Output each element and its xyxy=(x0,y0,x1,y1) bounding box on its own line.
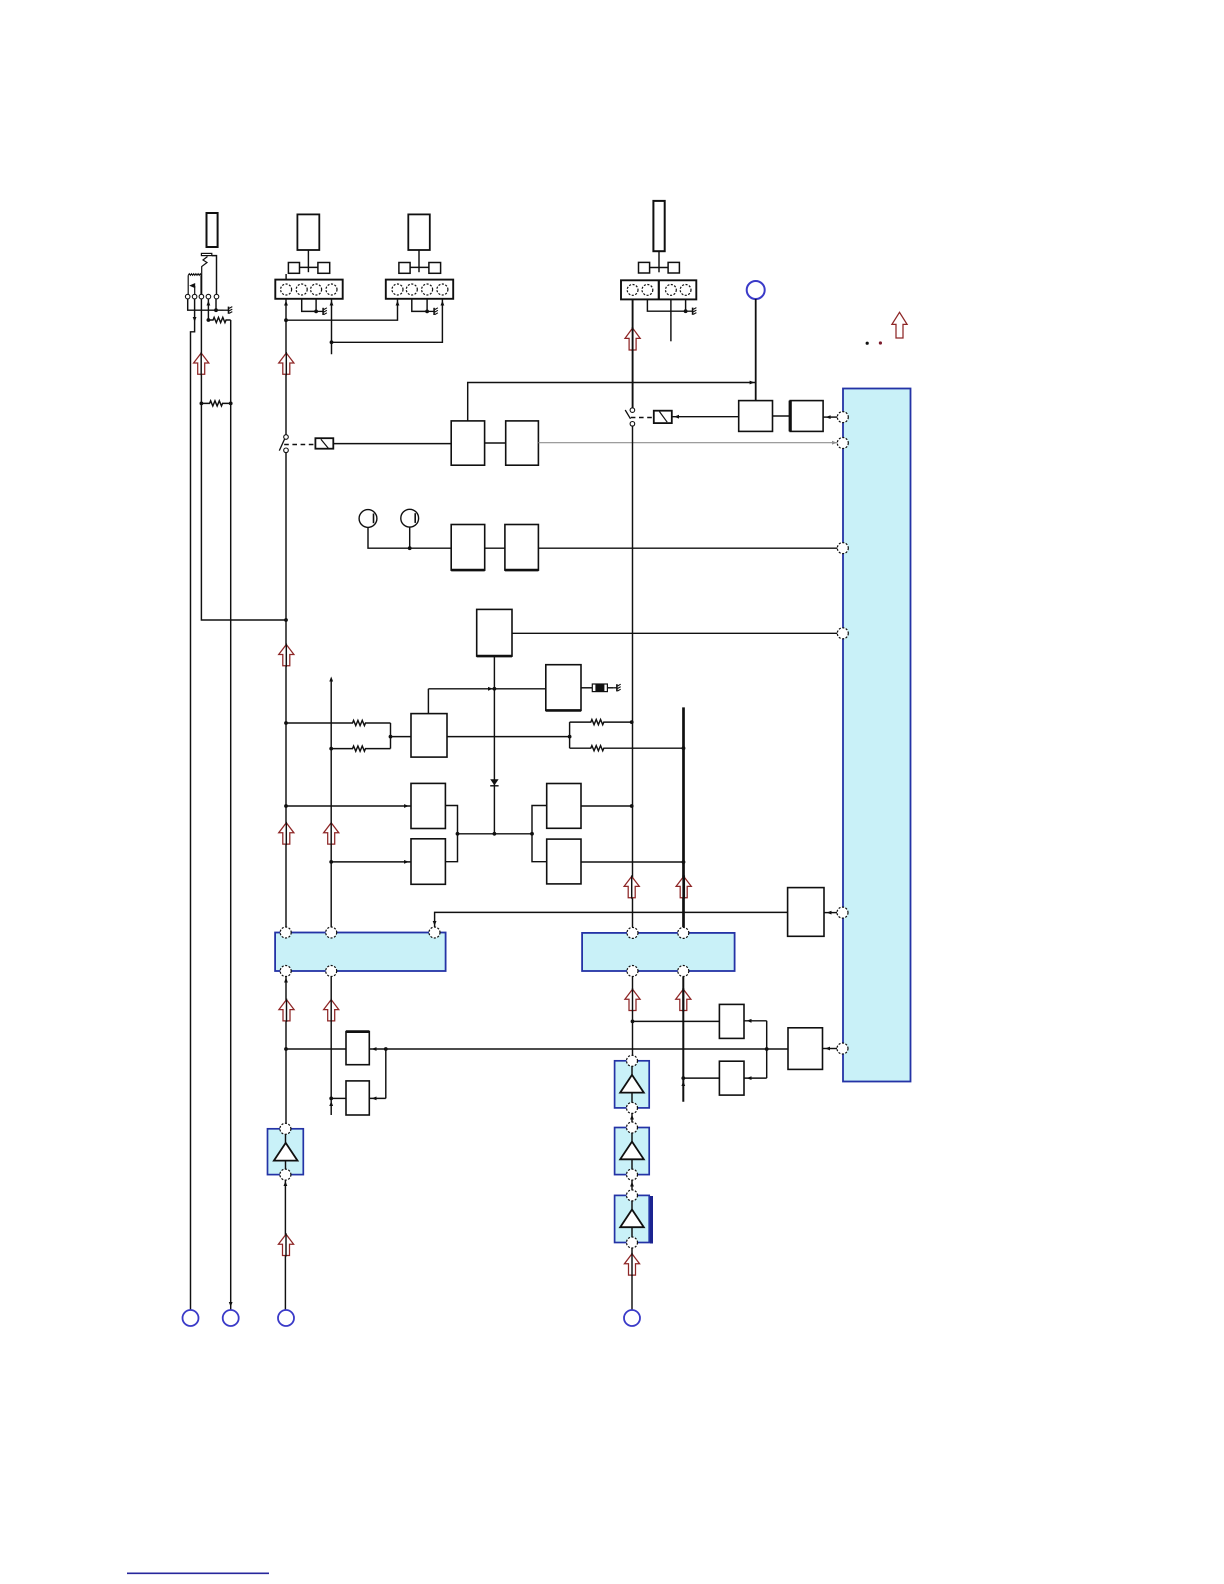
BD1 pin T1 xyxy=(280,927,291,938)
sub bus vertical wire xyxy=(330,681,332,927)
arrowhead left into U4 xyxy=(826,415,831,419)
junction sub bus / R104 xyxy=(329,747,333,751)
switch S2 lever xyxy=(625,410,630,419)
wire to U17 xyxy=(633,1020,720,1022)
ground GND4 (CN103) xyxy=(686,308,697,315)
wire U7 bottom down xyxy=(493,656,495,689)
jack J101 pin 5 xyxy=(214,294,219,299)
jack J101 tip contact zigzag xyxy=(202,257,208,295)
line3 vertical below switch xyxy=(632,426,634,927)
arrowhead up into CN102 pin4 xyxy=(441,301,445,306)
block U1 xyxy=(451,421,484,465)
block U6 (mic amp 2) xyxy=(505,525,539,571)
mixer R input bracket xyxy=(532,806,547,862)
ground GND5 (FB1) xyxy=(613,684,620,691)
CN102 right key square xyxy=(429,263,441,274)
RR bracket vertical xyxy=(569,722,571,748)
jack J101 coil left lead to pin 1 xyxy=(187,275,189,294)
arrowhead right into U10 xyxy=(404,804,409,808)
junction main bus / R-bracket top xyxy=(284,721,288,725)
junction R106 / line4 vertical xyxy=(682,746,686,750)
junction low bus left xyxy=(284,1047,288,1051)
junction resistor R102 right end xyxy=(229,402,233,406)
terminal T1 (blue) xyxy=(183,1310,199,1326)
wire main bus to U10 xyxy=(286,805,411,807)
pin circle U101-B xyxy=(837,438,848,449)
wire U7 to U101 pin D xyxy=(512,632,837,634)
arrow PS3 (red) on main bus mid xyxy=(279,645,294,666)
junction R101 left xyxy=(207,318,211,322)
microphone MIC1 xyxy=(359,510,377,528)
junction CN103 ground bracket xyxy=(684,309,688,313)
CN101 stem xyxy=(307,250,309,267)
low bus horizontal xyxy=(286,1048,788,1050)
block U11 (mixer L b) xyxy=(411,839,445,885)
arrowhead down on pin2 wire xyxy=(193,317,197,322)
wire U14 to U101 pin E xyxy=(824,912,837,914)
wire CN101 pins2+3 ground bracket xyxy=(302,299,316,311)
amp A4 thick right edge xyxy=(650,1196,653,1244)
arrowhead up into CN101 pin1 xyxy=(284,301,288,306)
wire to U18 xyxy=(683,1077,719,1079)
arrowhead left into U14 xyxy=(827,911,832,915)
wire A1 to terminal xyxy=(284,1180,286,1310)
wire A2-A3 xyxy=(631,1113,633,1122)
wire U3 to S2 box xyxy=(672,416,739,418)
arrowhead up at sub bus top xyxy=(329,677,333,682)
wire TP1 down to block U3 xyxy=(755,299,757,401)
arrowhead right into U11 xyxy=(404,860,409,864)
CN103 pin 1 xyxy=(627,285,638,296)
BD2 pin T1 xyxy=(627,927,638,938)
jack J101 coil contact xyxy=(188,274,201,276)
line4 vertical thick xyxy=(682,707,685,927)
junction R bracket mid xyxy=(389,735,393,739)
block U14 xyxy=(788,888,824,937)
block U3 xyxy=(739,401,773,432)
wire S1 box to block U1 xyxy=(333,443,451,445)
block U5 (mic amp 1) xyxy=(451,525,485,571)
switch S1 actuator box xyxy=(315,438,333,449)
amp A4 internal wires xyxy=(631,1201,633,1210)
CN103 pin 2 xyxy=(642,285,653,296)
arrowhead left into S2 box xyxy=(674,415,679,419)
wire U3-U4 xyxy=(773,415,791,417)
BD2 pin T2 xyxy=(678,927,689,938)
terminal T3 (blue) xyxy=(278,1310,294,1326)
CN102 key link wire xyxy=(410,266,429,268)
block U15 xyxy=(346,1032,369,1065)
arrow PS14 (red) standalone near U101 xyxy=(892,312,907,338)
arrow PS9 (red) below BD1-B1 xyxy=(279,1000,294,1021)
BD2 pin B2 xyxy=(678,966,689,977)
BD1 pin B2 xyxy=(326,966,337,977)
junction U13 / line4 xyxy=(682,860,686,864)
wire jack pin3 down (node DET) xyxy=(201,299,286,620)
mixer L output bracket xyxy=(445,806,532,862)
junction DET joins main bus xyxy=(284,618,288,622)
wire R101 to terminal column (node HP-R) xyxy=(230,320,232,1310)
block U7 bottom shade xyxy=(477,655,512,658)
wire U1 top feed xyxy=(468,383,756,421)
board bar BD2 (cyan) xyxy=(582,933,735,971)
junction resistor R102 left end xyxy=(200,402,204,406)
stray dot black xyxy=(866,342,869,345)
amp A4 pin bottom xyxy=(627,1237,638,1248)
MIC2 electret bar xyxy=(414,513,416,523)
IC block U101 (large cyan block right) xyxy=(843,389,911,1082)
junction U7/beat bus xyxy=(493,687,497,691)
CN103 stem xyxy=(658,251,660,267)
amp A2 triangle xyxy=(620,1075,644,1093)
block U5 bottom shade xyxy=(451,569,485,572)
terminal TP1 (blue circle top) xyxy=(747,281,765,299)
terminal T2 (blue) xyxy=(223,1310,239,1326)
wire CN101 pin4 to CN102 pin4 xyxy=(332,299,443,354)
switch S2 contact top xyxy=(630,408,635,413)
junction bracket / low bus xyxy=(765,1047,769,1051)
arrowhead up into CN102 pin1 xyxy=(396,301,400,306)
CN102 key link tick xyxy=(418,267,420,272)
arrowhead up below A1 xyxy=(284,1181,288,1186)
block U12 (mixer R a) xyxy=(547,784,581,829)
U15/U16 bracket vertical xyxy=(385,1049,387,1098)
wire beat bus horizontal xyxy=(428,689,545,714)
wire A3-A4 xyxy=(631,1180,633,1190)
CN101 pin 3 xyxy=(311,284,322,295)
R bracket vertical xyxy=(390,723,392,749)
arrow PS13 (red) on A4 output wire xyxy=(624,1254,639,1275)
amp A3 pin top xyxy=(627,1122,638,1133)
arrowhead left into U15 xyxy=(372,1047,377,1051)
junction mixer R bracket xyxy=(530,832,534,836)
ferrite bead FB1 xyxy=(592,684,607,692)
wire A4 to terminal xyxy=(631,1248,633,1310)
arrowhead left into U19 xyxy=(825,1047,830,1051)
arrowhead right on beat bus xyxy=(488,687,493,691)
amp A4 (cyan) xyxy=(615,1195,650,1242)
resistor R101 xyxy=(208,317,230,322)
junction main bus / mixer input xyxy=(284,804,288,808)
CN101 stub above pin1 xyxy=(285,274,287,284)
junction CN101 ground bracket xyxy=(314,310,318,314)
resistor R103 (top) from main bus xyxy=(286,720,391,725)
wire jack pin4 to resistor R101 xyxy=(207,299,209,320)
connector CN102 shell xyxy=(386,280,453,299)
junction U12 / line3 xyxy=(630,804,634,808)
resistor R104 (bottom) from sub bus xyxy=(331,746,390,751)
arrowhead up between A3-A4 xyxy=(630,1182,634,1187)
wire U1-U2 xyxy=(485,442,506,444)
wire board link top xyxy=(435,912,788,927)
junction RR bracket mid xyxy=(568,735,572,739)
wire MIC1 down xyxy=(368,527,451,548)
wire BD2-B1 down xyxy=(632,977,634,1056)
amp A1 triangle xyxy=(274,1143,298,1161)
block U7 (osc) xyxy=(477,609,512,656)
junction MIC bus xyxy=(408,546,412,550)
wire sub bus to U11 xyxy=(331,861,411,863)
pin circle U101-D xyxy=(837,628,848,639)
wire CN103 pin3 stub xyxy=(670,300,672,342)
stray dot red xyxy=(879,341,882,344)
wire U16 to BD1-B2 line xyxy=(331,1097,346,1099)
block U15 top shade xyxy=(346,1030,369,1033)
arrowhead right on top feed xyxy=(750,381,755,385)
wire U19 to U101 pin F xyxy=(823,1048,838,1050)
wire BD1-B2 down xyxy=(330,977,332,1116)
headphone jack J101 plug body xyxy=(207,213,218,247)
wire U4 to U101 pin A xyxy=(823,416,837,418)
amp A1 (cyan) xyxy=(268,1129,304,1175)
block U4 thick left edge xyxy=(789,401,792,432)
pin circle U101-F xyxy=(837,1043,848,1054)
CN103 left key square xyxy=(639,262,650,273)
CN103 shell divider xyxy=(658,280,660,299)
wire CN103 pins2+4 ground bracket xyxy=(647,300,685,312)
diode D1 wire xyxy=(493,689,495,834)
connector CN101 shell xyxy=(275,280,342,299)
arrow PS8 (red) on line4 above bar xyxy=(676,876,691,897)
BD1 pin T2 xyxy=(326,927,337,938)
CN102 pin 3 xyxy=(422,284,433,295)
block U17 xyxy=(719,1004,744,1038)
junction CN101 pin4 branch xyxy=(330,340,334,344)
amp A2 pin top xyxy=(627,1055,638,1066)
CN103 pin 4 xyxy=(680,285,691,296)
BD1 pin B1 xyxy=(280,966,291,977)
diode D1 xyxy=(490,779,498,785)
block U9 (eq) xyxy=(411,714,447,758)
board bar BD1 (cyan) xyxy=(275,933,446,972)
wire U17 right to bracket xyxy=(744,1020,767,1022)
amp A2 pin bottom xyxy=(627,1102,638,1113)
CN101 left key square xyxy=(288,263,299,274)
arrowhead down on HP-R wire above terminal xyxy=(229,1302,233,1307)
block U18 xyxy=(719,1061,744,1095)
wire jack pin2 down to terminal (node HP-L) xyxy=(191,299,195,1310)
junction low bus / U16 bracket xyxy=(384,1047,388,1051)
wire U6 to U101 pin C xyxy=(538,547,837,549)
jack J101 pin 2 xyxy=(192,294,197,299)
arrow PS15 (red) below BD2-B2 xyxy=(676,989,691,1010)
pin circle U101-E xyxy=(837,907,848,918)
CN103 key link wire xyxy=(650,267,669,269)
wire jack pin5 to ground bus xyxy=(215,299,217,310)
footer rule (blue) xyxy=(127,1572,269,1574)
block U16 xyxy=(346,1081,369,1115)
arrowhead left into U18 xyxy=(747,1076,752,1080)
jack J101 pin 1 xyxy=(185,294,190,299)
switch S2 link dashed xyxy=(631,417,654,419)
wire jack pin1 to ground bus xyxy=(188,299,224,310)
gray arrowhead into U101 pin B xyxy=(832,441,837,445)
MIC1 electret bar xyxy=(373,514,375,524)
CN101 pin 2 xyxy=(296,284,307,295)
arrow PS12 (red) below BD2-B1 xyxy=(625,989,640,1010)
junction BD2-B2 / U18 xyxy=(681,1076,685,1080)
amp A2 internal wires xyxy=(631,1066,633,1076)
junction BD2-B1 / U17 xyxy=(631,1020,635,1024)
wire FB1 to ground xyxy=(607,687,613,689)
ground GND2 (CN101) xyxy=(316,308,327,315)
arrowhead up below that junction xyxy=(329,1101,333,1106)
gray wire U2 to U101 pin B xyxy=(538,442,837,444)
resistor R102 xyxy=(201,401,230,406)
CN101 pin 4 xyxy=(326,284,337,295)
pin circle U101-C xyxy=(837,543,848,554)
arrowhead up into CN101 pin4 xyxy=(330,301,334,306)
connector CN103 shell xyxy=(621,280,696,299)
junction BD1-B2 / U16 line xyxy=(329,1097,333,1101)
arrow PS2 (red) on main bus xyxy=(279,353,294,374)
amp A4 triangle xyxy=(620,1210,644,1228)
wire U12 output to line3 xyxy=(581,805,632,807)
CN102 pin 4 xyxy=(437,284,448,295)
amp A1 pin bottom xyxy=(280,1169,291,1180)
wire U5-U6 xyxy=(485,547,505,549)
switch S1 lever xyxy=(279,439,284,451)
CN101 key link wire xyxy=(300,266,318,268)
arrow PS6 (red) on line3 top xyxy=(625,328,640,350)
arrowhead up into jack pin4 xyxy=(207,301,211,306)
wire R bracket to U9 xyxy=(391,736,412,738)
arrowhead up between A2-A3 xyxy=(630,1115,634,1120)
CN102 left key square xyxy=(399,263,410,274)
junction pin5/ground bus xyxy=(214,308,218,312)
block U8 bottom shade xyxy=(546,709,581,712)
CN101 pin 1 xyxy=(281,284,292,295)
block U4 xyxy=(790,401,823,432)
CN103 right key square xyxy=(668,262,679,273)
wire U13 output to line4 xyxy=(581,861,684,863)
microphone MIC2 xyxy=(401,509,419,527)
amp A1 pin top xyxy=(280,1123,291,1134)
CN103 key link tick xyxy=(658,268,660,273)
wire U8 to bead FB1 xyxy=(581,687,592,689)
switch S2 actuator diagonal xyxy=(659,412,667,423)
jack J101 arrow lead to pin 2 xyxy=(194,286,196,294)
switch S2 actuator box xyxy=(654,411,672,423)
arrow PS1 (red) on jack pin3 wire xyxy=(194,353,209,374)
amp A2 (cyan) xyxy=(615,1061,650,1108)
junction CN102 ground bracket xyxy=(425,310,429,314)
arrowhead up below BD1-B1 xyxy=(284,978,288,983)
wire bracket to U16 xyxy=(369,1097,386,1099)
block U2 xyxy=(506,421,539,465)
junction R105 / line3 vertical xyxy=(630,720,634,724)
ground GND3 (CN102) xyxy=(427,308,438,315)
junction bus tie on main bus xyxy=(284,318,288,322)
junction sub bus / mixer2 input xyxy=(329,860,333,864)
wire CN102 pins2+3 ground bracket xyxy=(412,299,427,311)
wire BD1-B1 down to amp A1 xyxy=(285,977,287,1124)
junction mixer L bracket xyxy=(456,832,460,836)
arrowhead down into bar1 pin xyxy=(433,921,437,926)
jack J101 sleeve wire to pin 5 xyxy=(212,256,217,295)
arrowhead up below BD2-B2 junction xyxy=(681,1081,685,1086)
BD2 pin B1 xyxy=(627,966,638,977)
terminal T4 (blue) xyxy=(624,1310,640,1326)
pin circle U101-A xyxy=(837,412,848,423)
wire U9 output to RR bracket xyxy=(447,736,570,738)
block U8 xyxy=(546,665,581,711)
main bus wire below switch S1 xyxy=(285,453,287,927)
amp A4 pin top xyxy=(627,1190,638,1201)
block U10 (mixer L a) xyxy=(411,783,445,828)
resistor R105 (top right) xyxy=(570,720,632,725)
arrowhead left into U17 xyxy=(747,1019,752,1023)
connector CN101 remote unit body xyxy=(297,214,319,250)
amp A3 pin bottom xyxy=(627,1169,638,1180)
switch S1 actuator diagonal xyxy=(321,439,329,448)
BD1 pin T3 xyxy=(429,927,440,938)
switch S1 link dashed xyxy=(284,444,315,446)
junction diode line / center bus xyxy=(493,832,497,836)
line3 vertical (CN103 pin1 chain) xyxy=(632,299,634,408)
CN101 key link tick xyxy=(307,267,309,272)
ground GND1 (jack) xyxy=(224,307,233,314)
block U6 bottom shade xyxy=(505,569,539,572)
amp A3 internal wires xyxy=(631,1133,633,1142)
CN101 right key square xyxy=(318,263,330,274)
connector CN102 remote unit body xyxy=(408,214,430,250)
resistor R106 (bottom right) xyxy=(570,746,684,751)
jack J101 switch arrow contact xyxy=(189,283,195,288)
jack J101 pin 3 xyxy=(199,294,204,299)
jack J101 pin 4 xyxy=(206,294,211,299)
jack J101 sleeve bar xyxy=(201,253,211,255)
connector CN103 unit body xyxy=(653,201,664,251)
arrow PS4 (red) on main bus lower xyxy=(279,823,294,844)
switch S1 contact top xyxy=(284,435,289,440)
CN102 pin 1 xyxy=(392,284,403,295)
block U13 (mixer R b) xyxy=(547,839,581,884)
switch S2 contact bottom xyxy=(630,422,635,427)
arrow PS5 (red) on sub bus xyxy=(324,823,339,844)
U17/U18 bracket vertical xyxy=(766,1021,768,1078)
arrow PS11 (red) on A1 output wire xyxy=(278,1234,293,1255)
wire CN101 pin1 to CN102 pin1 (bus tie) xyxy=(286,299,398,320)
arrow PS7 (red) on line3 above bar xyxy=(624,876,639,897)
CN102 pin 2 xyxy=(406,284,417,295)
arrowhead left into U16 xyxy=(372,1097,377,1101)
CN102 stem xyxy=(418,250,420,267)
wire BD2-B2 down xyxy=(682,977,684,1102)
amp A3 (cyan) xyxy=(615,1128,650,1175)
CN103 pin 3 xyxy=(666,285,677,296)
wire U18 right to bracket xyxy=(744,1077,767,1079)
jack J101 coil right lead to pin 3 xyxy=(200,275,202,294)
block U19 xyxy=(788,1028,823,1070)
main bus wire from CN101 pin1 down to switch S1 xyxy=(285,299,287,435)
wire MIC2 down xyxy=(409,527,411,548)
arrow PS10 (red) below BD1-B2 xyxy=(324,1000,339,1021)
switch S1 contact bottom xyxy=(284,448,289,453)
amp A3 triangle xyxy=(620,1142,644,1160)
amp A1 internal wires xyxy=(285,1134,287,1144)
